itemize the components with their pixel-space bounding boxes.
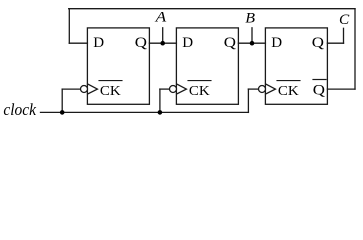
wire clock riser FF1 xyxy=(61,89,63,112)
svg-text:Q: Q xyxy=(224,35,236,51)
wire Q2 to D3 xyxy=(238,42,265,44)
junction dot clock to FF2 xyxy=(158,110,163,115)
CK edge-trigger triangle U3 xyxy=(266,84,276,94)
flip-flop U1 box xyxy=(87,28,149,104)
wire clock riser FF3 xyxy=(247,89,249,112)
Qbar overline U3 xyxy=(313,79,326,81)
svg-text:clock: clock xyxy=(3,100,36,119)
svg-text:A: A xyxy=(154,10,167,26)
flip-flop U2 box xyxy=(176,28,238,104)
svg-text:CK: CK xyxy=(100,84,121,99)
wire node C stub xyxy=(343,28,345,43)
wire CK feed FF2 xyxy=(160,88,170,90)
CK inversion bubble U2 xyxy=(170,86,177,93)
wire CK feed FF1 xyxy=(62,88,80,90)
CK overline U2 xyxy=(188,80,211,82)
wire feedback left vertical xyxy=(68,9,70,44)
junction dot clock to FF1 xyxy=(60,110,65,115)
wire node B stub xyxy=(251,28,253,43)
CK overline U1 xyxy=(99,80,122,82)
flip-flop U3 box xyxy=(265,28,327,104)
svg-text:CK: CK xyxy=(189,84,210,99)
junction dot node A xyxy=(160,41,165,46)
wire feedback top xyxy=(69,8,355,10)
CK edge-trigger triangle U2 xyxy=(177,84,187,94)
CK inversion bubble U1 xyxy=(81,86,88,93)
svg-text:C: C xyxy=(339,12,350,28)
svg-text:Q: Q xyxy=(313,83,325,99)
svg-text:CK: CK xyxy=(278,84,299,99)
wire Q3 output xyxy=(327,42,343,44)
CK inversion bubble U3 xyxy=(259,86,266,93)
svg-text:Q: Q xyxy=(135,35,147,51)
wire Q1 to D2 xyxy=(149,42,176,44)
wire node A stub xyxy=(162,28,164,43)
svg-text:Q: Q xyxy=(312,35,324,51)
svg-text:D: D xyxy=(182,35,193,51)
wire CK feed FF3 xyxy=(248,88,258,90)
svg-text:D: D xyxy=(271,35,282,51)
svg-text:D: D xyxy=(93,35,104,51)
wire feedback right vertical xyxy=(354,9,356,89)
svg-text:B: B xyxy=(245,11,255,27)
CK edge-trigger triangle U1 xyxy=(88,84,98,94)
wire Qbar output FF3 xyxy=(327,88,355,90)
junction dot node B xyxy=(250,41,255,46)
CK overline U3 xyxy=(277,80,300,82)
wire clock riser FF2 xyxy=(159,89,161,112)
wire clock line xyxy=(41,111,249,113)
wire D input FF1 xyxy=(69,42,87,44)
